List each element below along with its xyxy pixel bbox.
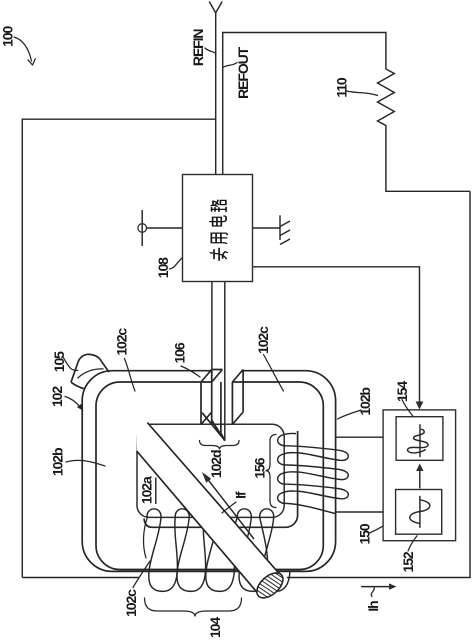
svg-text:102a: 102a [138, 476, 154, 504]
svg-text:102c: 102c [123, 589, 139, 617]
svg-text:108: 108 [155, 257, 171, 278]
svg-text:Ih: Ih [365, 601, 381, 612]
svg-text:REFIN: REFIN [190, 29, 206, 66]
svg-text:105: 105 [51, 351, 67, 372]
svg-text:152: 152 [400, 551, 416, 572]
svg-text:150: 150 [357, 523, 373, 544]
svg-text:102c: 102c [113, 328, 129, 356]
svg-text:110: 110 [334, 77, 350, 98]
svg-text:104: 104 [207, 617, 223, 638]
svg-text:102b: 102b [50, 448, 66, 476]
svg-text:154: 154 [394, 381, 410, 402]
svg-text:102: 102 [49, 386, 65, 407]
svg-text:102c: 102c [255, 326, 271, 354]
svg-text:102b: 102b [357, 388, 373, 416]
svg-text:REFOUT: REFOUT [235, 46, 251, 99]
svg-text:156: 156 [252, 457, 268, 478]
svg-text:102d: 102d [208, 450, 224, 478]
svg-text:106: 106 [171, 342, 187, 363]
svg-text:100: 100 [0, 26, 15, 47]
